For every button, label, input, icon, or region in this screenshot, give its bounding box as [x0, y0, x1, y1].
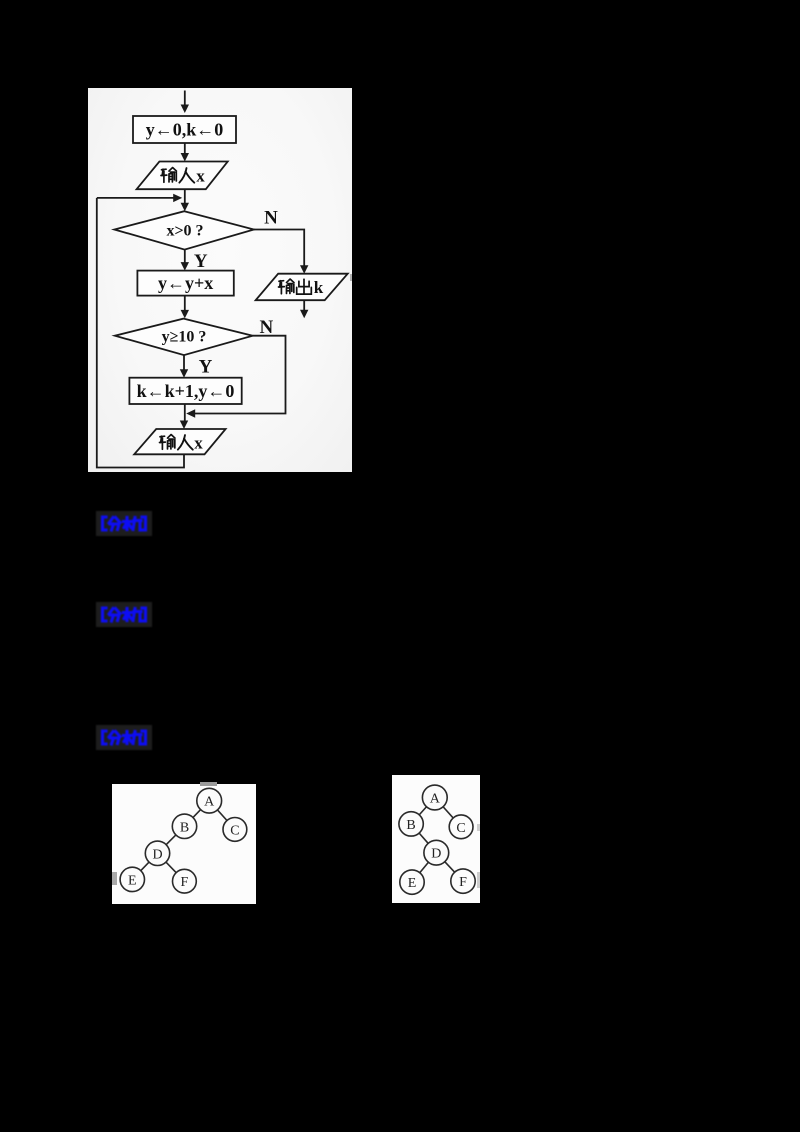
- svg-text:C: C: [456, 821, 465, 836]
- svg-text:F: F: [459, 875, 467, 890]
- svg-text:A: A: [204, 795, 215, 810]
- svg-text:k: k: [314, 278, 324, 297]
- svg-text:Y: Y: [199, 357, 213, 378]
- svg-text:Y: Y: [194, 251, 208, 272]
- svg-text:N: N: [264, 208, 278, 229]
- svg-text:B: B: [180, 820, 189, 835]
- svg-text:B: B: [406, 818, 415, 833]
- svg-text:y←0,k←0: y←0,k←0: [146, 120, 224, 140]
- svg-text:N: N: [260, 317, 274, 338]
- svg-text:y≥10 ?: y≥10 ?: [162, 329, 207, 346]
- svg-text:C: C: [230, 823, 239, 838]
- svg-text:E: E: [128, 873, 137, 888]
- svg-text:x: x: [194, 434, 203, 453]
- svg-text:D: D: [431, 847, 441, 862]
- svg-text:x: x: [196, 167, 205, 186]
- svg-text:y←y+x: y←y+x: [158, 273, 213, 293]
- svg-text:E: E: [408, 876, 417, 891]
- svg-text:k←k+1,y←0: k←k+1,y←0: [137, 381, 235, 401]
- svg-text:D: D: [152, 847, 162, 862]
- svg-text:F: F: [181, 875, 189, 890]
- svg-text:x>0 ?: x>0 ?: [166, 223, 203, 240]
- svg-text:A: A: [430, 792, 441, 807]
